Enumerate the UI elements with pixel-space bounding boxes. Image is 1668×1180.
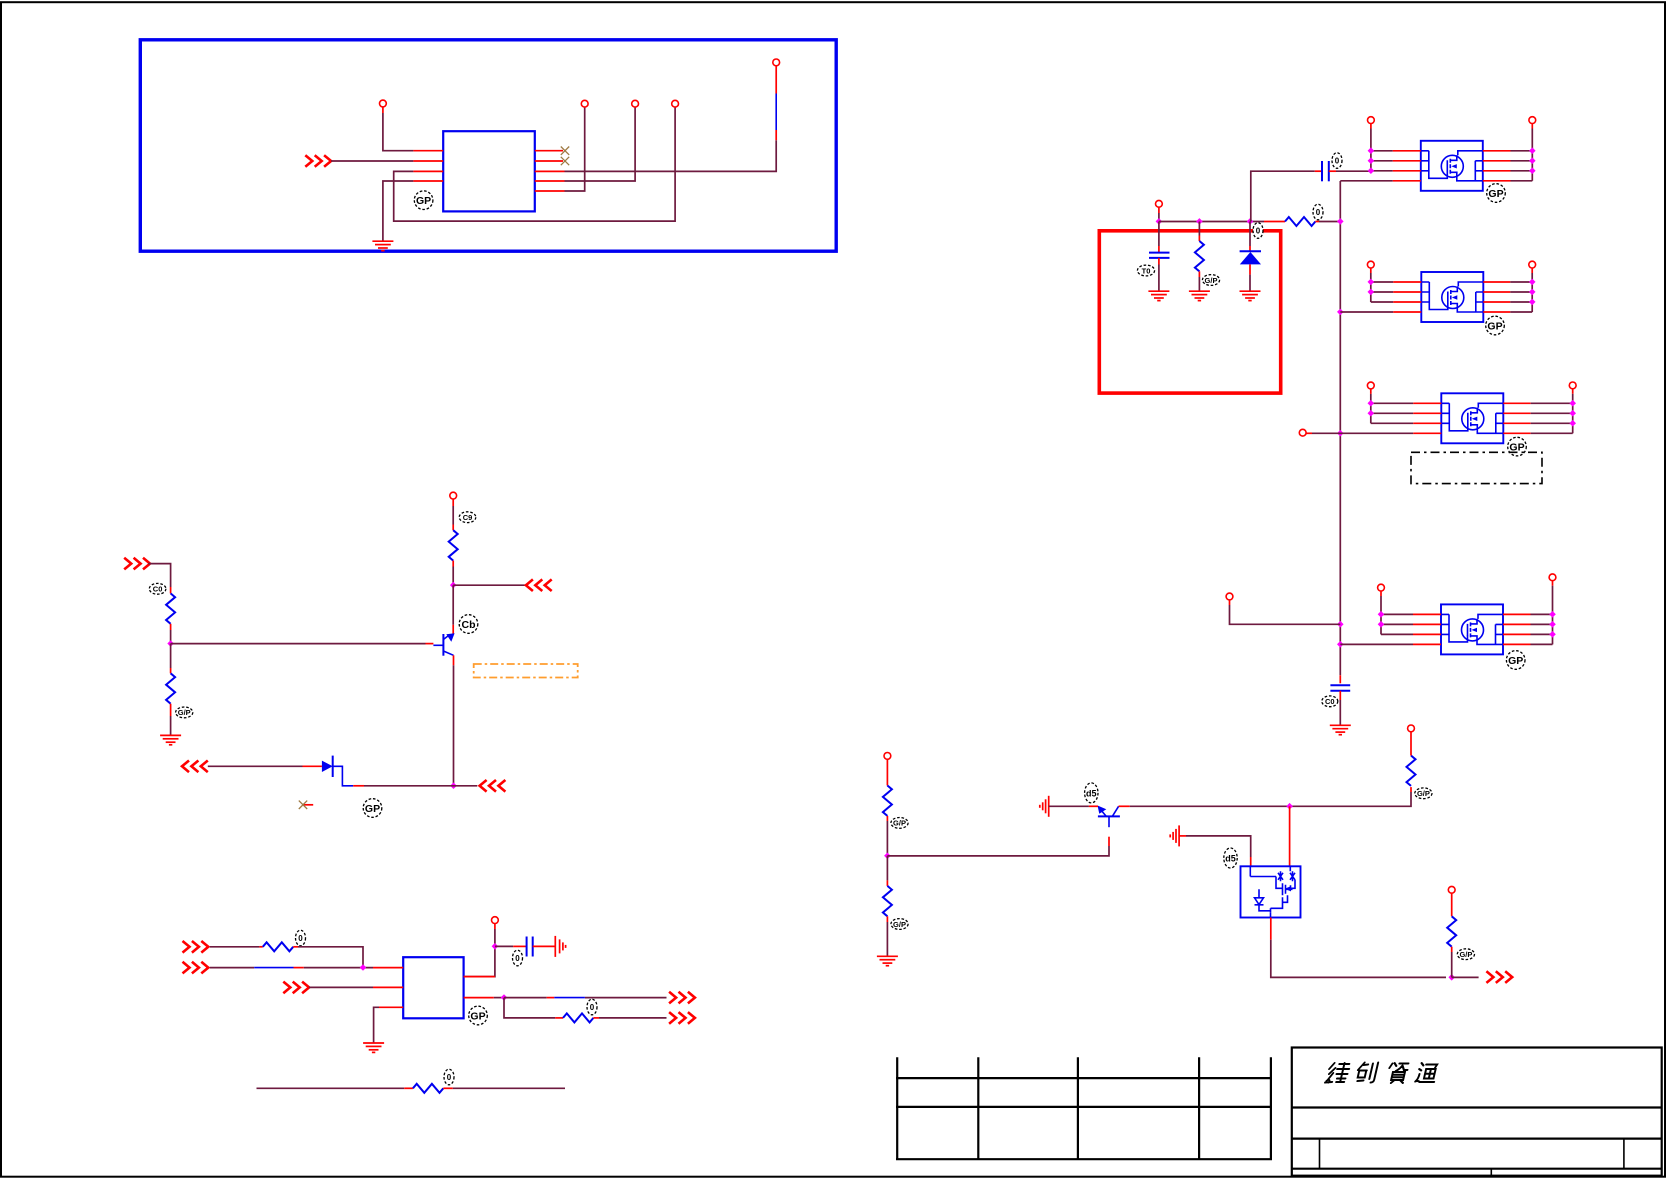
- label R12 G/P: [1457, 949, 1474, 960]
- wire U1 pin3 under-wrap: [394, 107, 675, 221]
- svg-text:GP: GP: [1488, 188, 1503, 200]
- wire D1 cathode to emitter node: [333, 766, 354, 786]
- junction bus/Q4 row: [1337, 309, 1344, 316]
- label C3: [1137, 265, 1154, 276]
- Q6 left riser: [1380, 591, 1382, 596]
- node divider junction: [167, 640, 174, 647]
- wire terminal to R9: [886, 759, 888, 785]
- svg-text:C0: C0: [153, 585, 163, 594]
- label C5: [1322, 696, 1338, 707]
- junction bus/Q6 row: [1337, 641, 1344, 648]
- rail wire: [1159, 221, 1264, 223]
- label Q7 d5: [1085, 783, 1098, 803]
- Q4 left junctions: [1368, 279, 1375, 286]
- label R4: [296, 930, 306, 946]
- label package d5: [1224, 848, 1237, 868]
- junction output node: [501, 994, 508, 1001]
- Q5 left row wires: [1371, 402, 1414, 404]
- pin 1 stub: [413, 150, 443, 152]
- ground (D2): [1240, 291, 1261, 300]
- junction node P6/P7: [360, 964, 367, 971]
- terminal (pin 9 net): [581, 100, 588, 107]
- terminal (R11 top): [1408, 725, 1415, 732]
- Q6 right riser: [1552, 581, 1554, 586]
- terminal (collector pull-up): [450, 492, 457, 499]
- pin 4 stub: [413, 180, 443, 182]
- svg-text:C9: C9: [463, 513, 473, 522]
- svg-text:0: 0: [1256, 227, 1261, 236]
- label net stamp: [1253, 223, 1263, 239]
- junction rail at C3: [1156, 218, 1163, 225]
- Q5 right row wires: [1503, 402, 1530, 404]
- no-connect X pin6: [561, 157, 569, 165]
- svg-text:0: 0: [1335, 157, 1340, 166]
- port P7 input: [183, 962, 209, 974]
- wire power rail to package pin: [1179, 835, 1186, 837]
- junction vdd node: [492, 943, 499, 950]
- Q4 left riser: [1370, 268, 1372, 273]
- terminal (pin 7 net): [773, 59, 780, 66]
- svg-text:GP: GP: [1508, 655, 1523, 667]
- ground: [160, 735, 181, 744]
- ground (bus): [1330, 725, 1351, 734]
- wire P5 to D1: [208, 765, 303, 767]
- riser blue segment: [775, 94, 777, 131]
- svg-text:GP: GP: [365, 803, 380, 815]
- port P10 output: [669, 1012, 695, 1024]
- wire Q1 emitter down: [453, 655, 455, 665]
- terminal (U2 vdd net): [492, 917, 499, 924]
- orange note box: [474, 664, 578, 678]
- wire pin8 to terminal: [565, 107, 636, 181]
- label R6: [444, 1069, 454, 1085]
- resistor R5: [563, 1013, 593, 1022]
- mosfet Q3 (packaged): [1421, 141, 1483, 191]
- Q3 terminal right: [1529, 117, 1536, 124]
- ground: [372, 241, 393, 250]
- Q6 terminal right: [1549, 574, 1556, 581]
- capacitor C2: [527, 937, 533, 957]
- svg-text:G/P: G/P: [893, 819, 906, 828]
- label Q1 Cb: [459, 615, 478, 634]
- Q6 terminal left: [1378, 584, 1385, 591]
- svg-text:0: 0: [298, 934, 303, 943]
- wire pin9 to terminal: [565, 107, 585, 191]
- junction bus/terminal wire: [1337, 621, 1344, 628]
- revision table: [896, 1057, 1272, 1160]
- title block frame: [1292, 1048, 1662, 1177]
- svg-text:GP: GP: [1487, 320, 1502, 332]
- mosfet Q5 (packaged): [1441, 393, 1503, 443]
- Q3 left junctions: [1368, 147, 1375, 154]
- junction divider node: [884, 853, 891, 860]
- port P3 output: [526, 579, 552, 591]
- wire C2 to power bars: [533, 945, 556, 947]
- svg-text:T0: T0: [1142, 266, 1151, 275]
- wire terminal to rail node: [1158, 207, 1160, 213]
- wire terminal to R3: [452, 499, 454, 506]
- Q3 right row wires: [1483, 150, 1511, 152]
- resistor R6: [413, 1084, 443, 1093]
- Q5 left junctions: [1368, 400, 1375, 407]
- resistor R10: [886, 856, 888, 881]
- terminal (filter rail): [1156, 200, 1163, 207]
- designator stamp GP: [363, 799, 382, 818]
- capacitor C4 coupling: [1251, 171, 1315, 221]
- Q5 designator stamp GP: [1508, 437, 1527, 456]
- riser red top segment: [775, 66, 777, 94]
- svg-text:0: 0: [590, 1003, 595, 1012]
- company logotype 通: [1415, 1063, 1438, 1082]
- U2 designator stamp GP: [469, 1006, 488, 1025]
- wire drive terminal to bus: [1229, 600, 1231, 605]
- diode D1: [322, 756, 333, 777]
- resistor R8: [1198, 222, 1200, 236]
- wire pin7 to terminal riser: [565, 140, 777, 171]
- IC U2: [403, 957, 463, 1018]
- dashed note box: [1411, 452, 1542, 483]
- pin 7 stub: [535, 170, 565, 172]
- Q3 designator stamp GP: [1487, 184, 1506, 203]
- ground (C3): [1148, 291, 1169, 300]
- svg-text:Cb: Cb: [462, 619, 476, 631]
- mosfet Q6 (packaged): [1441, 604, 1503, 654]
- wire P6 to R4: [210, 946, 260, 948]
- wire rail to R7: [1264, 221, 1285, 223]
- company logotype 緯: [1325, 1063, 1351, 1083]
- power rail (package vcc): [1170, 825, 1179, 846]
- Q5 right riser: [1572, 389, 1574, 394]
- terminal (pin 1 net): [380, 100, 387, 107]
- svg-text:d5: d5: [1225, 854, 1236, 864]
- wire node down to R5: [504, 998, 555, 1018]
- hierarchical block border: [140, 40, 836, 251]
- resistor R3: [449, 530, 458, 560]
- capacitor C3: [1158, 222, 1160, 247]
- junction bus/R7: [1337, 218, 1344, 225]
- label R8 G/P: [1202, 275, 1219, 286]
- Q5 terminal left: [1367, 382, 1374, 389]
- wire P8 to U2 pin2: [309, 986, 373, 988]
- wire P7 to node (blue net segment): [210, 967, 254, 969]
- U2 bottom-right pin stub: [464, 997, 494, 999]
- port P8 input: [283, 982, 309, 994]
- Q5 terminal row4: [1299, 429, 1306, 436]
- port P11 output: [1486, 971, 1512, 983]
- svg-text:C0: C0: [1325, 697, 1335, 706]
- Q3 left riser: [1370, 124, 1372, 129]
- port P2 input: [124, 558, 150, 570]
- U1 designator stamp GP: [414, 191, 433, 210]
- Q4 right row wires: [1483, 281, 1510, 283]
- wire node down to Q1: [452, 585, 454, 625]
- resistor R12 pull-up: [1448, 886, 1455, 893]
- Q3 right riser: [1531, 124, 1533, 129]
- resistor R1: [166, 593, 175, 623]
- ground (divider): [877, 956, 898, 965]
- svg-text:GP: GP: [470, 1010, 485, 1022]
- junction at collector node: [450, 582, 457, 589]
- svg-text:d5: d5: [1086, 788, 1097, 798]
- label C4: [1332, 153, 1342, 169]
- label R1: [149, 583, 166, 594]
- ground: [363, 1043, 384, 1052]
- junction emitter node: [450, 782, 457, 789]
- resistor R4: [263, 942, 293, 951]
- resistor R9: [883, 786, 892, 816]
- wire node to port P4: [454, 785, 478, 787]
- svg-text:GP: GP: [416, 195, 431, 207]
- port P4 output: [480, 780, 506, 792]
- wire Q7 collector to gate node: [1119, 805, 1130, 807]
- svg-text:G/P: G/P: [1459, 950, 1472, 959]
- mosfet Q4 (packaged): [1421, 272, 1483, 322]
- wire power rail to Q7 emitter: [1049, 805, 1089, 807]
- port P1 input: [305, 155, 331, 167]
- Q5 right junctions: [1569, 400, 1576, 407]
- Q6 designator stamp GP: [1506, 651, 1525, 670]
- wire node to port P9 (blue net segment): [504, 997, 547, 999]
- port P9 output: [669, 992, 695, 1004]
- label R11 G/P: [1415, 788, 1432, 799]
- svg-text:G/P: G/P: [178, 708, 191, 717]
- ground (R8): [1189, 291, 1210, 300]
- Q4 terminal right: [1529, 261, 1536, 268]
- wire R4 to node: [298, 947, 363, 968]
- label R7: [1313, 204, 1323, 220]
- junction bus/Q5 row: [1337, 430, 1344, 437]
- Q6 left junctions: [1378, 611, 1385, 618]
- IC U1: [443, 131, 535, 211]
- Q4 right riser: [1531, 268, 1533, 273]
- capacitor C5 bus decoupling: [1339, 675, 1341, 683]
- svg-text:0: 0: [1316, 208, 1321, 217]
- label R9 G/P: [891, 818, 908, 829]
- power rail symbol: [555, 936, 565, 957]
- Q6 left row wires: [1381, 613, 1413, 615]
- Q5 terminal right: [1569, 382, 1576, 389]
- terminal (pin 8 net): [632, 100, 639, 107]
- Q3 row4 wire from bus: [1340, 180, 1393, 182]
- wire net with series resistor R6: [257, 1087, 405, 1089]
- port P5 input: [182, 761, 208, 773]
- company logotype 資: [1386, 1063, 1409, 1083]
- wire node to port P3: [453, 584, 527, 586]
- terminal (drive input): [1226, 593, 1233, 600]
- svg-text:G/P: G/P: [1205, 276, 1218, 285]
- wire node to Q1 base: [171, 643, 426, 645]
- gate bus wire: [1339, 181, 1341, 675]
- svg-text:G/P: G/P: [893, 920, 906, 929]
- transistor Q1: [433, 633, 454, 656]
- terminal (pin 3 under-wrap net): [672, 100, 679, 107]
- pin 3 stub: [413, 170, 443, 172]
- svg-text:G/P: G/P: [1417, 789, 1430, 798]
- label R2 G/P: [176, 707, 193, 718]
- label C2: [513, 950, 523, 966]
- svg-text:0: 0: [515, 954, 520, 963]
- Q6 right row wires: [1503, 613, 1531, 615]
- Q3 left row wires: [1371, 150, 1393, 152]
- pin 8 stub: [535, 180, 565, 182]
- svg-text:0: 0: [447, 1073, 452, 1082]
- Q6 row4 wire from bus: [1340, 643, 1413, 645]
- zener diode D2: [1249, 222, 1251, 247]
- label R10 G/P: [891, 919, 908, 930]
- Q4 right junctions: [1529, 279, 1536, 286]
- Q3 right junctions: [1529, 147, 1536, 154]
- wire node to Q7 base: [887, 846, 1109, 856]
- wire terminal to U1 pin1: [382, 107, 384, 113]
- wire node to C2: [495, 945, 513, 947]
- transistor Q7: [1098, 806, 1120, 828]
- pin 5 stub no-connect: [535, 150, 563, 152]
- no-connect stub: [303, 804, 313, 806]
- Q3 terminal left: [1368, 117, 1375, 124]
- mosfet Q8 (protected package): [1241, 866, 1301, 917]
- terminal (divider top): [884, 753, 891, 760]
- wire terminal to U2 top-right pin: [494, 924, 496, 930]
- Q4 designator stamp GP: [1486, 316, 1505, 335]
- Q4 row4 wire from bus: [1340, 311, 1393, 313]
- resistor R11 pull-up: [1410, 787, 1412, 792]
- Q5 row4 wire: [1306, 432, 1312, 434]
- Q6 right junctions: [1549, 611, 1556, 618]
- power rail (emitter): [1040, 796, 1049, 817]
- junction output node: [1448, 974, 1455, 981]
- Q4 terminal left: [1367, 261, 1374, 268]
- wire U2 pin3 to ground: [379, 1006, 403, 1008]
- wire node to port P11: [1452, 976, 1479, 978]
- company logotype 創: [1355, 1063, 1378, 1083]
- wire package to output node: [1270, 918, 1272, 940]
- Q5 left riser: [1370, 389, 1372, 394]
- pin 9 stub: [535, 190, 565, 192]
- wire P2 to R1 top: [148, 564, 170, 587]
- wire P1 to U1 pin2: [331, 160, 413, 162]
- junction gate node: [1286, 803, 1293, 810]
- red highlight box: [1099, 231, 1280, 393]
- wire U1 pin4 to ground: [383, 181, 414, 241]
- label R3: [459, 512, 476, 523]
- resistor R7: [1285, 217, 1315, 226]
- Q4 left row wires: [1371, 281, 1394, 283]
- U2 pin1 stub: [373, 967, 403, 969]
- port P6 input: [183, 941, 209, 953]
- pin 2 stub: [413, 160, 443, 162]
- no-connect X: [299, 801, 307, 809]
- no-connect X pin5: [561, 147, 569, 155]
- riser red segment: [775, 130, 777, 140]
- resistor R2: [170, 644, 172, 668]
- label R5: [587, 999, 597, 1015]
- junction rail at D2: [1247, 218, 1254, 225]
- pin 6 stub no-connect: [535, 160, 563, 162]
- wire gate node down to package: [1289, 806, 1291, 866]
- junction rail at R8: [1196, 218, 1203, 225]
